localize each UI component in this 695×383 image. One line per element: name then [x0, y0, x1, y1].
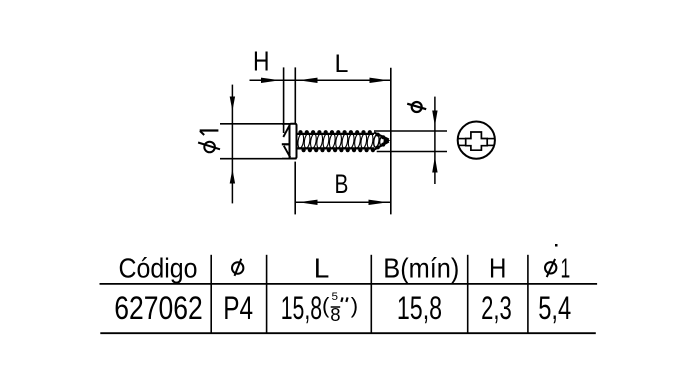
front view phillips cross: [466, 132, 488, 150]
extension line head top face: [283, 67, 285, 133]
svg-text:5: 5: [332, 291, 339, 303]
dimension line B: [295, 201, 391, 203]
extension line B left: [294, 162, 296, 215]
table vertical line 2: [266, 255, 268, 333]
svg-text:5,4: 5,4: [538, 290, 571, 326]
arrow d top: [432, 111, 437, 127]
front view cross wing lines: [458, 139, 495, 146]
data cell L double prime: [341, 297, 347, 302]
stray dot: [555, 244, 558, 247]
thread crest band bottom: [297, 147, 374, 149]
arrow H right: [261, 78, 280, 83]
label d rotated diameter symbol: [407, 102, 426, 112]
svg-text:Código: Código: [119, 253, 198, 284]
arrow B left: [299, 200, 318, 205]
screw head outline bottom: [282, 158, 297, 160]
front view head circle: [458, 122, 495, 159]
recess upper diagonal: [283, 125, 290, 137]
arrow d bottom: [432, 157, 437, 173]
table bottom line: [100, 332, 596, 334]
arrow L left: [299, 78, 318, 83]
arrow d1 bottom: [230, 169, 235, 184]
dimension line H/L horizontal: [250, 79, 391, 81]
extension line d1 top: [220, 123, 282, 125]
arrow d1 top: [230, 97, 235, 112]
dimension line d vertical right: [434, 97, 436, 184]
extension line head bearing face upper: [294, 67, 296, 123]
svg-text:15,8: 15,8: [397, 290, 442, 326]
svg-text:B(mín): B(mín): [383, 253, 459, 284]
table vertical line 1: [210, 255, 212, 333]
screw tip cone: [373, 133, 390, 150]
table middle line: [100, 283, 598, 285]
table vertical line 3: [370, 255, 372, 333]
label d1 rotated: digit 1: [200, 131, 219, 136]
svg-text:H: H: [253, 45, 270, 76]
dimension line d1 vertical left: [231, 85, 233, 204]
svg-text:H: H: [489, 253, 506, 284]
table vertical line 5: [527, 255, 529, 333]
screw head outline top: [282, 123, 297, 125]
svg-text:P4: P4: [223, 290, 253, 326]
svg-text:627062: 627062: [114, 290, 203, 326]
thread helix ellipses: [297, 133, 374, 148]
svg-text:2,3: 2,3: [481, 290, 512, 326]
arrow B right: [369, 200, 388, 205]
svg-text:L: L: [334, 50, 348, 78]
label d1 rotated: diameter symbol: [198, 142, 220, 153]
extension line thread od top: [374, 130, 447, 132]
svg-text:(: (: [322, 293, 330, 318]
svg-text:1: 1: [561, 253, 571, 284]
svg-text:B: B: [335, 169, 349, 199]
recess middle bar: [282, 143, 290, 145]
svg-text:8: 8: [330, 304, 340, 325]
extension line d1 bottom: [220, 158, 282, 160]
thread crest bumps top: [298, 130, 372, 134]
table vertical line 4: [467, 255, 469, 333]
svg-text:15,8: 15,8: [281, 290, 322, 326]
header cell diameter symbol: [232, 259, 243, 276]
recess lower diagonal: [284, 146, 290, 158]
thread crest band top: [297, 133, 374, 135]
thread crest bumps bottom: [302, 148, 376, 152]
screw head body bar: [290, 124, 297, 159]
header cell diameter1 symbol: [545, 259, 556, 277]
arrow L right: [370, 78, 389, 83]
svg-text:): ): [351, 293, 358, 318]
extension line screw tip vertical: [390, 68, 392, 215]
data cell L fraction bar: [331, 306, 341, 308]
svg-text:L: L: [314, 253, 330, 284]
extension line thread od bottom: [377, 151, 447, 153]
